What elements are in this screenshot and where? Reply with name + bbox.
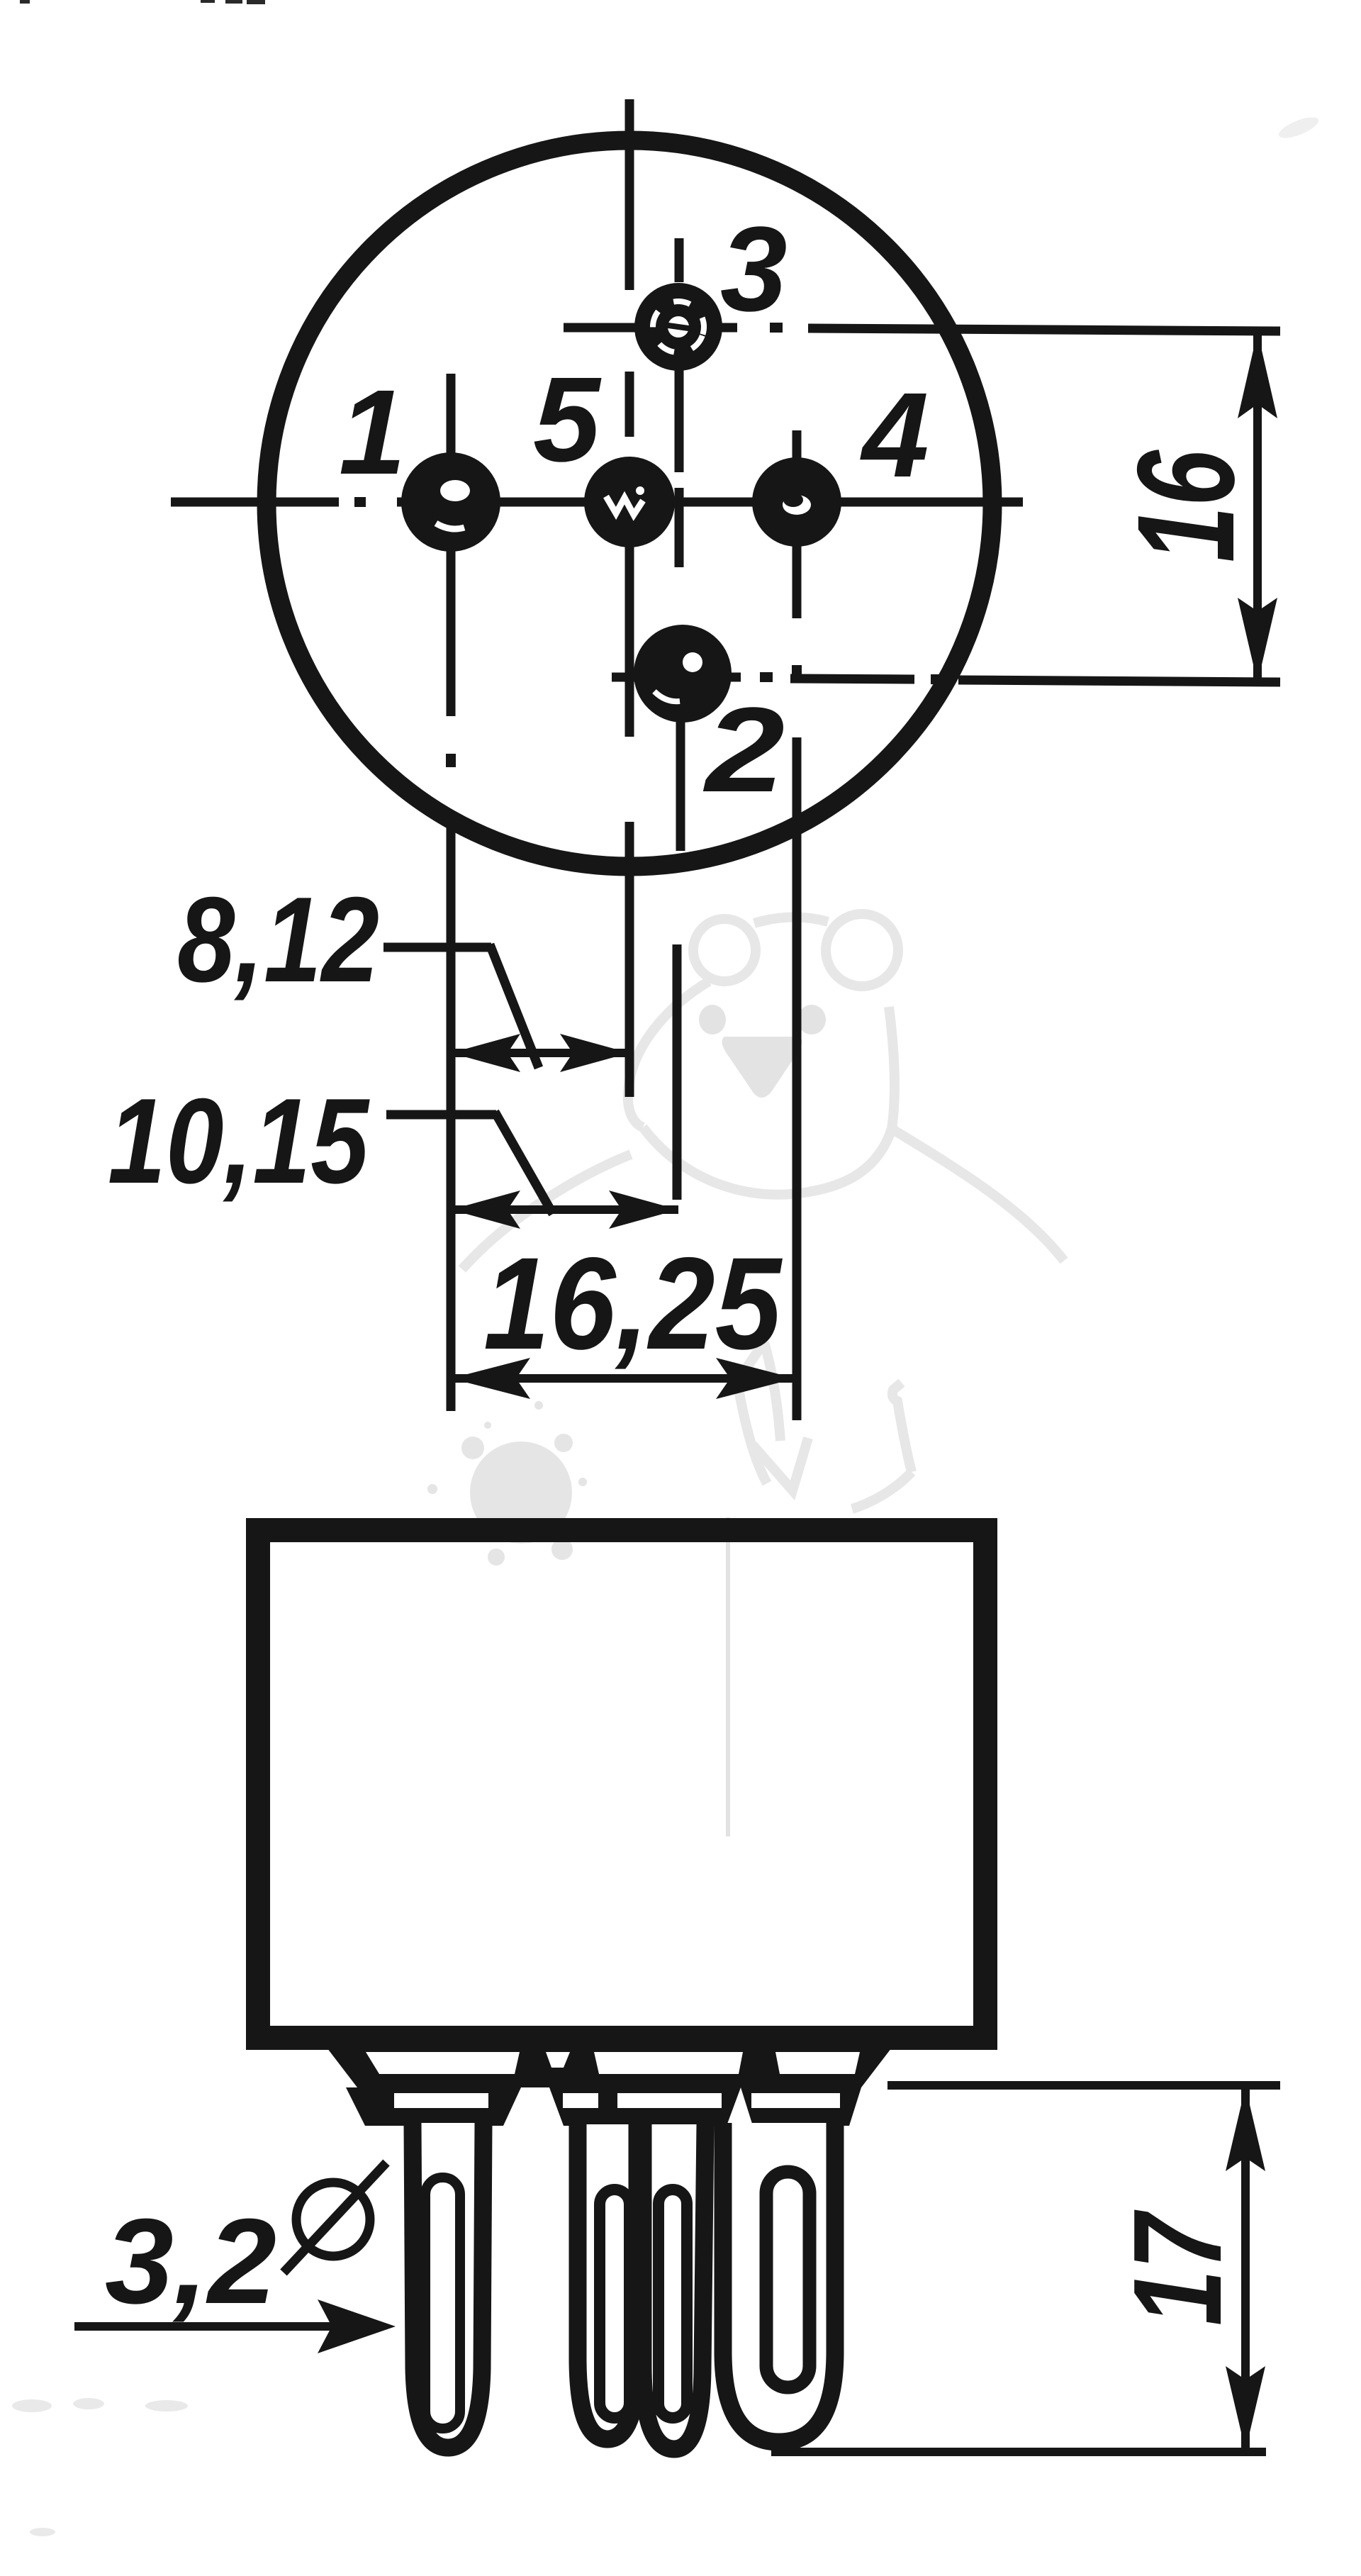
dimension 16,25 [451,1231,795,1399]
pin 1 disc [401,452,500,552]
svg-text:17: 17 [1107,2209,1248,2326]
watermark bear face (eyes and nose) [699,1005,826,1098]
pin 2 disc [634,625,732,723]
watermark splatter [427,1401,601,1566]
svg-text:1: 1 [339,365,406,500]
pin 1 vertical centerline [447,374,456,1411]
watermark vertical edge line [726,1517,730,1836]
svg-text:8,12: 8,12 [177,872,379,1008]
vertical centerline through pin 5 [625,99,634,1097]
pin 2 horizontal centerline (extends right for 16 dim) [612,677,1280,682]
svg-text:2: 2 [702,683,785,818]
pin 3 / pin 2 vertical centerline [677,238,680,1200]
svg-text:16,25: 16,25 [483,1231,783,1377]
flange row (wafer) [323,2042,896,2087]
svg-text:10,15: 10,15 [108,1074,370,1209]
dimension 17 (right side) [771,2085,1280,2452]
pin 4 disc [752,457,841,547]
pin 4 vertical centerline [792,430,802,1420]
dimension 16 (right side) [1109,332,1277,683]
svg-text:3,2: 3,2 [105,2194,276,2329]
svg-text:3: 3 [720,202,788,337]
top edge specks [20,0,265,4]
pin blade front middle [643,2124,705,2449]
pin blade rear middle [578,2124,637,2439]
pin 5 disc [584,457,675,547]
dimension 3,2 diameter [74,2163,396,2353]
socket outline circle [267,140,992,866]
pin 3 disc [634,283,722,371]
pin blade 1 (left) [413,2123,483,2448]
body outline (side view) [258,1530,985,2038]
svg-text:4: 4 [860,368,929,503]
pin blade right [723,2123,835,2442]
svg-text:16: 16 [1109,450,1263,562]
dimension 8,12 [177,872,629,1072]
pin collars [346,2087,861,2126]
pin collar slits [394,2093,840,2108]
horizontal centerline through pins 1,5,4 [171,498,1023,507]
pin 3 horizontal centerline (extends right for 16 dim) [564,328,1280,331]
dimension 10,15 [108,1074,678,1229]
svg-text:5: 5 [533,352,602,487]
watermark bear logo [462,914,1064,1509]
